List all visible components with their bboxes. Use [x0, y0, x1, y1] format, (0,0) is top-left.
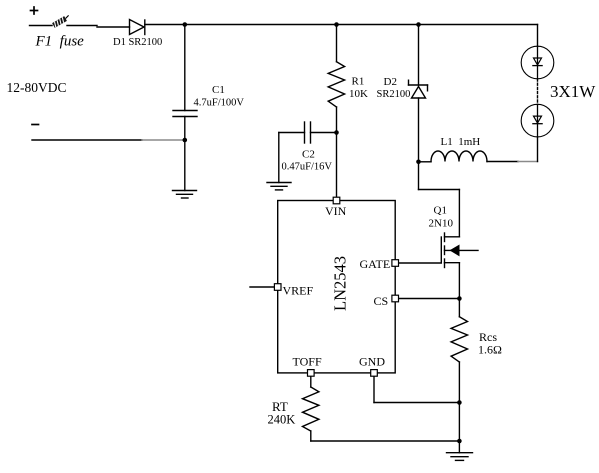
svg-text:10K: 10K	[349, 88, 368, 100]
svg-text:CS: CS	[374, 294, 389, 308]
svg-text:VREF: VREF	[283, 284, 314, 298]
svg-text:F1 fuse: F1 fuse	[35, 34, 85, 50]
svg-text:12-80VDC: 12-80VDC	[7, 80, 67, 95]
svg-text:1.6Ω: 1.6Ω	[478, 343, 502, 357]
svg-text:LN2543: LN2543	[331, 256, 350, 311]
svg-text:2N10: 2N10	[429, 218, 454, 230]
svg-text:D1 SR2100: D1 SR2100	[113, 37, 162, 48]
svg-text:C2: C2	[302, 149, 315, 161]
svg-text:TOFF: TOFF	[293, 355, 322, 369]
svg-text:4.7uF/100V: 4.7uF/100V	[194, 98, 245, 109]
svg-text:3X1W: 3X1W	[550, 82, 596, 101]
svg-text:VIN: VIN	[325, 204, 347, 218]
svg-text:L1 1mH: L1 1mH	[441, 136, 481, 148]
svg-text:GATE: GATE	[360, 257, 391, 271]
svg-text:0.47uF/16V: 0.47uF/16V	[282, 162, 333, 173]
svg-text:240K: 240K	[268, 413, 296, 427]
svg-text:R1: R1	[352, 76, 365, 88]
svg-text:C1: C1	[212, 84, 225, 96]
svg-text:D2: D2	[384, 76, 397, 88]
svg-text:SR2100: SR2100	[377, 89, 411, 100]
svg-text:Q1: Q1	[434, 205, 447, 217]
svg-text:GND: GND	[359, 355, 385, 369]
